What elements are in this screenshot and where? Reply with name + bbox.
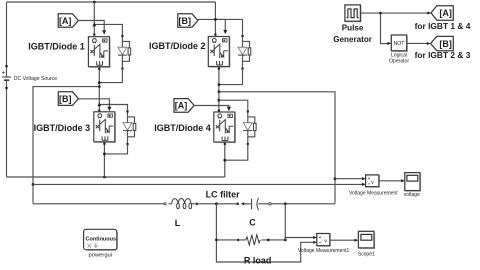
wire: Pulse Generator to Goto A xyxy=(360,12,427,14)
arrow into IGBT1 gate xyxy=(102,30,106,34)
IGBT/Diode 2 block U2 xyxy=(208,37,230,68)
IGBT/Diode 1 block U1 xyxy=(88,37,110,68)
arrow into IGBT3 gate xyxy=(107,107,111,111)
svg-text:[A]: [A] xyxy=(175,101,188,111)
wire: collector branch to diode D2 top xyxy=(215,19,242,34)
node: R row right junction xyxy=(284,239,287,242)
node: D1 join dot xyxy=(98,81,101,84)
node: R row left junction xyxy=(215,239,218,242)
arrow into Scope1 xyxy=(355,239,359,242)
wire: IGBT3 emitter down to bottom bus xyxy=(103,142,105,177)
svg-text:R load: R load xyxy=(244,255,272,265)
wire: D4 bottom to emitter node xyxy=(225,144,248,160)
svg-text:voltage: voltage xyxy=(404,192,420,198)
From tag [B] for IGBT3 xyxy=(58,92,78,106)
wire: NOT to Goto B xyxy=(407,42,427,44)
IGBT/Diode 3 block U3 xyxy=(94,112,116,143)
left DC rail wire xyxy=(6,2,8,177)
arrow into IGBT2 gate xyxy=(223,30,227,34)
node: D2 join dot xyxy=(218,83,221,86)
IGBT/Diode 4 block U4 xyxy=(214,112,236,143)
wire: pulse branch down to NOT xyxy=(381,14,389,44)
svg-text:for IGBT 1 & 4: for IGBT 1 & 4 xyxy=(415,21,471,31)
From tag [A] for IGBT4 xyxy=(174,99,194,113)
Scope block Scope1 xyxy=(358,231,375,249)
wire: to Voltage Measurement1 input 1 xyxy=(285,238,313,240)
From tag [A] for IGBT1 xyxy=(58,14,78,28)
node: IGBT2 emitter port xyxy=(218,68,220,70)
wire: From [A] to IGBT1 gate xyxy=(78,21,104,32)
arrow into IGBT4 gate xyxy=(227,107,231,111)
node: pulse branch junction xyxy=(379,12,382,15)
node: DC source + port xyxy=(5,65,8,68)
svg-text:DC Voltage Source: DC Voltage Source xyxy=(14,76,57,82)
wire: From [B] to IGBT3 gate xyxy=(78,99,109,108)
node: Out2 branch dot xyxy=(218,90,221,93)
arrow into Voltage Measurement input 1 xyxy=(362,177,366,180)
Pulse Generator block xyxy=(345,5,362,23)
diode D2 with snubber xyxy=(238,35,251,70)
svg-text:[B]: [B] xyxy=(59,94,72,104)
inductor L xyxy=(164,198,199,208)
node: IGBT1 collector port xyxy=(93,34,95,36)
wire: C junction down to R row xyxy=(284,204,286,240)
wire: VM to voltage scope xyxy=(379,180,402,182)
arrow into Voltage Measurement1 input 1 xyxy=(313,236,317,239)
top DC bus wire xyxy=(7,1,216,3)
svg-text:Voltage Measurement: Voltage Measurement xyxy=(349,191,398,197)
svg-text:powergui: powergui xyxy=(89,252,113,258)
node: IGBT3 emitter port xyxy=(103,143,105,145)
wire: IGBT2 emitter down xyxy=(218,67,220,112)
wire: D3 bottom to emitter node xyxy=(104,144,127,154)
svg-text:IGBT/Diode 2: IGBT/Diode 2 xyxy=(149,41,206,51)
arrow into Goto A xyxy=(427,11,431,14)
node: D4 join dot xyxy=(223,159,226,162)
wire: R load row xyxy=(216,239,285,241)
Voltage Measurement1 block VM1 xyxy=(317,234,331,247)
diode D1 with snubber xyxy=(118,35,131,70)
svg-text:Scope1: Scope1 xyxy=(358,251,375,257)
wire: riser to Voltage Measurement plus xyxy=(335,178,363,180)
svg-text:Operator: Operator xyxy=(389,59,409,65)
node: DC source - port xyxy=(5,87,8,90)
svg-text:IGBT/Diode 3: IGBT/Diode 3 xyxy=(34,123,91,133)
node: IGBT2 collector port xyxy=(214,34,216,36)
wire: Out2 to right riser xyxy=(219,92,335,204)
node: Out1 riser junction xyxy=(32,183,35,186)
node: IGBT4 emitter port xyxy=(224,143,226,145)
From tag [B] for IGBT2 xyxy=(178,14,198,28)
wire: collector branch to diode D4 top xyxy=(219,100,248,110)
wire: R load left branch xyxy=(216,204,313,262)
wire: bus to IGBT1 collector xyxy=(93,2,95,35)
bottom emitter bus wire xyxy=(7,176,225,178)
wire: From [B] to IGBT2 gate xyxy=(198,19,225,30)
svg-text:[B]: [B] xyxy=(179,16,192,26)
wire: D1 bottom to emitter node xyxy=(99,69,122,83)
diode D3 with snubber xyxy=(123,110,136,145)
node: D4 branch dot xyxy=(218,99,221,102)
svg-text:C: C xyxy=(249,217,256,227)
svg-text:Continuous: Continuous xyxy=(86,236,117,242)
svg-text:IGBT/Diode 4: IGBT/Diode 4 xyxy=(154,123,211,133)
svg-text:Logical: Logical xyxy=(391,52,407,58)
node: IGBT4 collector port xyxy=(218,110,220,112)
NOT Logical Operator block xyxy=(391,35,408,52)
node: IGBT2 collector branch dot xyxy=(214,18,217,21)
svg-text:[A]: [A] xyxy=(439,8,452,18)
wire: LC filter line xyxy=(33,203,335,205)
svg-text:Voltage Measurement1: Voltage Measurement1 xyxy=(298,248,350,254)
node: junction after C to R load xyxy=(284,202,287,205)
arrow into Voltage Measurement input 2 xyxy=(362,183,366,186)
node: Out1 branch dot xyxy=(98,85,101,88)
node: IGBT3 collector port xyxy=(98,110,100,112)
svg-text:for IGBT 2 & 3: for IGBT 2 & 3 xyxy=(415,50,471,60)
node: top bus junction above IGBT1 xyxy=(93,1,96,4)
node: bottom bus junction xyxy=(103,176,106,179)
svg-text:LC filter: LC filter xyxy=(206,190,240,200)
capacitor C xyxy=(236,198,271,210)
arrow into Goto B xyxy=(427,42,431,45)
Goto tag [B] xyxy=(431,36,454,50)
diode D4 with snubber xyxy=(243,110,256,145)
wire: VM1 to Scope1 xyxy=(330,239,355,241)
DC Voltage Source V1 battery symbol xyxy=(2,71,11,80)
wire: From [A] to IGBT4 gate xyxy=(194,106,229,108)
arrow into Voltage Measurement1 input 2 xyxy=(313,241,317,244)
arrow up at IGBT1 collector/diode junction xyxy=(92,22,96,26)
svg-text:IGBT/Diode 1: IGBT/Diode 1 xyxy=(28,41,85,51)
wire: Out1 to Voltage Measurement minus xyxy=(33,183,363,185)
Voltage Measurement block VM xyxy=(366,175,380,188)
svg-text:Generator: Generator xyxy=(333,35,373,44)
svg-text:NOT: NOT xyxy=(394,41,406,47)
svg-text:L: L xyxy=(175,218,181,228)
wire: collector branch to diode D3 top xyxy=(99,105,127,111)
node: VM plus branch junction xyxy=(334,177,337,180)
powergui block xyxy=(84,229,118,251)
svg-text:[B]: [B] xyxy=(439,39,452,49)
arrow up at IGBT3 collector/diode junction xyxy=(97,102,101,106)
svg-text:Pulse: Pulse xyxy=(342,24,364,33)
node: IGBT1 emitter port xyxy=(98,68,100,70)
Goto tag [A] xyxy=(431,6,453,21)
resistor R load xyxy=(237,235,270,245)
node: D3 join dot xyxy=(103,153,106,156)
wire: IGBT1 emitter down xyxy=(98,67,100,111)
node: junction after L to R load xyxy=(215,202,218,205)
svg-text:[A]: [A] xyxy=(59,16,72,26)
wire: IGBT4 emitter down to bottom bus xyxy=(224,142,226,177)
wire: D2 bottom to emitter node xyxy=(219,69,243,85)
arrow into NOT block xyxy=(387,42,391,45)
arrow into voltage scope xyxy=(401,179,405,182)
Scope block voltage xyxy=(405,173,421,192)
wire: Out1 to left riser xyxy=(33,87,99,204)
wire: collector branch to diode D1 top xyxy=(94,24,122,34)
wire: bus corner down to IGBT2 collector xyxy=(214,2,216,35)
